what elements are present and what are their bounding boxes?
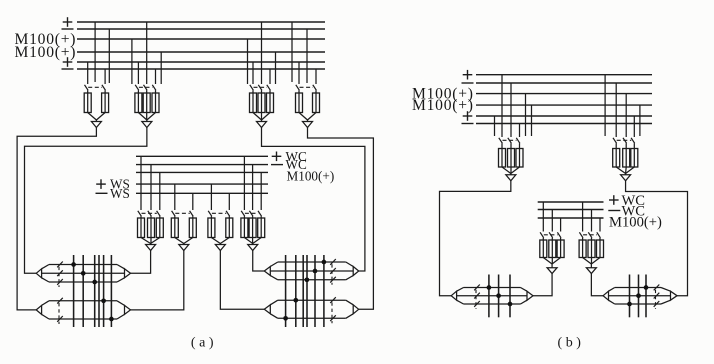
switch blade aG4.2 bbox=[313, 85, 317, 91]
resistor bG1.3 bbox=[516, 149, 523, 168]
resistor bG2.2 bbox=[623, 149, 630, 168]
switch blade aG2.3 bbox=[152, 85, 156, 91]
switch blade on line bMR.2 bbox=[654, 293, 660, 299]
wire dropper from bus to switch bG2.1 bbox=[615, 83, 617, 137]
switch blade on line bML.2 bbox=[474, 293, 480, 299]
switch blade bMA.1 bbox=[540, 232, 544, 238]
wire dropper from bus to switch aG2.1 bbox=[137, 62, 139, 84]
wire switch to resistor aMD.2 bbox=[252, 216, 254, 218]
bit line vertical bML bbox=[498, 275, 500, 318]
wire spare dropper aG3 bbox=[275, 52, 277, 84]
wire switch to resistor aG2.2 bbox=[146, 90, 148, 93]
fan-in bracket bMR bbox=[661, 288, 671, 292]
switch blade aMC.1 bbox=[208, 211, 212, 217]
switch blade bMA.3 bbox=[557, 232, 561, 238]
switch blade on line bMR.3 bbox=[654, 301, 660, 307]
switch blade bMB.1 bbox=[579, 232, 583, 238]
core junction dot bML bbox=[508, 302, 513, 307]
wire through resistor bG1.2 bbox=[510, 149, 512, 168]
switch blade aMA.3 bbox=[157, 211, 161, 217]
driver triangle aMA bbox=[146, 245, 156, 251]
driver triangle bG2 bbox=[621, 175, 631, 181]
switch blade on line bMR.1 bbox=[654, 285, 660, 291]
wire dropper from bus to switch aG1.1 bbox=[87, 62, 89, 84]
wire dropper from bus to switch aMB.1 bbox=[174, 184, 176, 210]
switch blade bG2.1 bbox=[613, 138, 617, 144]
resistor bG2.3 bbox=[631, 149, 638, 168]
resistor aG2.3 bbox=[152, 93, 159, 113]
dashed gang link bMR bbox=[655, 290, 657, 309]
resistor aMD.3 bbox=[258, 218, 265, 238]
dashed gang link aG4 bbox=[300, 86, 314, 88]
resistor bMB.1 bbox=[579, 240, 586, 258]
switch blade aMA.2 bbox=[148, 211, 152, 217]
driver triangle aG3 bbox=[257, 122, 267, 128]
switch blade aG2.1 bbox=[135, 85, 139, 91]
input triangle aML2 bbox=[36, 305, 41, 314]
bit line vertical aMR bbox=[295, 255, 297, 327]
dashed gang link bG2 bbox=[617, 139, 632, 141]
wire through resistor bMB.1 bbox=[582, 240, 584, 258]
resistor bMA.3 bbox=[557, 240, 564, 258]
bit line vertical aMR bbox=[302, 255, 304, 327]
label plus sign bbox=[463, 74, 473, 76]
wire switch to resistor aMB.2 bbox=[192, 216, 194, 218]
dashed gang link aMA bbox=[142, 212, 157, 214]
core junction dot aML bbox=[92, 280, 97, 285]
wire dropper from bus to switch bMB.2 bbox=[591, 210, 593, 232]
wire through resistor bMB.3 bbox=[599, 240, 601, 258]
wire through resistor aG4.2 bbox=[315, 93, 317, 113]
wire aG2 to matrix aML row1 input bbox=[25, 128, 147, 274]
wire dropper from bus to switch bG1.2 bbox=[510, 83, 512, 137]
wire through resistor bG2.3 bbox=[633, 149, 635, 168]
wire dropper from bus to switch aG4.2 bbox=[315, 69, 317, 84]
core junction dot aMR bbox=[283, 316, 288, 321]
wire through resistor aG3.2 bbox=[261, 93, 263, 113]
wire aG4 to matrix aMR row2 output bbox=[308, 128, 374, 310]
switch blade on line aMR2.2 bbox=[330, 315, 336, 321]
wire switch to resistor bMA.2 bbox=[551, 238, 553, 240]
switch blade aG4.1 bbox=[296, 85, 300, 91]
bit line vertical bMR bbox=[638, 275, 640, 318]
label plus sign bbox=[63, 61, 73, 63]
input triangle aMR1 bbox=[264, 267, 270, 276]
bus line a-top 1 bbox=[77, 21, 325, 23]
wire through resistor aG2.1 bbox=[137, 93, 139, 113]
switch blade bG1.2 bbox=[508, 138, 512, 144]
resistor aG2.1 bbox=[135, 93, 142, 113]
wire switch to resistor aG4.2 bbox=[315, 90, 317, 93]
selection line middle aML1 bbox=[42, 272, 125, 274]
wire dropper from bus to switch aG3.1 bbox=[252, 62, 254, 84]
wire dropper from bus to switch bG2.2 bbox=[625, 94, 627, 137]
wire spare dropper aG4 bbox=[306, 29, 308, 83]
wire converge aG3 bbox=[253, 113, 262, 121]
dashed gang link bMB bbox=[583, 234, 597, 236]
wire dropper from bus to switch bMA.1 bbox=[542, 202, 544, 232]
wire aMB to matrix aML row2 output bbox=[131, 251, 184, 310]
resistor bMA.1 bbox=[540, 240, 547, 258]
wire dropper from bus to switch aMD.3 bbox=[260, 172, 262, 210]
core junction dot aML bbox=[71, 262, 76, 267]
wire through resistor bG2.1 bbox=[615, 149, 617, 168]
wire switch to resistor aMA.2 bbox=[150, 216, 152, 218]
wire spare dropper aG4 bbox=[291, 22, 293, 82]
selection line top aMR1 bbox=[278, 261, 346, 263]
selection line top aML2 bbox=[49, 300, 117, 302]
fan-in bracket aMR2 bbox=[346, 300, 353, 305]
input triangle bMR bbox=[603, 291, 608, 300]
wire spare dropper bG2 bbox=[639, 105, 641, 136]
wire through resistor aMD.3 bbox=[260, 218, 262, 238]
resistor aMD.1 bbox=[241, 218, 248, 238]
wire switch to resistor aMD.1 bbox=[243, 216, 245, 218]
wire aMD to matrix aMR row1 input bbox=[253, 251, 265, 272]
wire aMC to matrix aMR row2 input bbox=[220, 251, 264, 310]
wire spare dropper aG3 bbox=[247, 39, 249, 84]
resistor aG1.2 bbox=[102, 93, 109, 113]
driver triangle bMB bbox=[586, 268, 596, 274]
fan-in bracket aML1 bbox=[117, 265, 125, 269]
dashed gang link aML1 bbox=[58, 267, 60, 287]
fan-out bracket aMR2 bbox=[270, 300, 278, 305]
wire spare dropper aG1 bbox=[94, 22, 96, 82]
wire switch to resistor bG1.2 bbox=[510, 143, 512, 148]
wire switch to resistor bG2.2 bbox=[625, 143, 627, 148]
driver triangle aMB bbox=[179, 245, 189, 251]
wire switch to resistor aG1.2 bbox=[104, 90, 106, 93]
wire spare dropper aG1 bbox=[108, 29, 110, 83]
bus line b-mid 2 bbox=[538, 209, 604, 211]
wire dropper from bus to switch bG2.3 bbox=[633, 116, 635, 137]
wire dropper from bus to switch aMC.1 bbox=[210, 184, 212, 210]
resistor bG1.2 bbox=[508, 149, 515, 168]
bus line b-mid 3 bbox=[538, 217, 604, 219]
output triangle bML bbox=[527, 291, 533, 300]
wire switch to resistor aG3.2 bbox=[261, 90, 263, 93]
wire through resistor aG3.1 bbox=[252, 93, 254, 113]
bus line a-mid 3 bbox=[136, 171, 268, 173]
bus line b-top 3 bbox=[476, 93, 652, 95]
bit line vertical bML bbox=[509, 275, 511, 318]
wire dropper from bus to switch aG2.3 bbox=[155, 69, 157, 84]
label minus sign bbox=[462, 82, 474, 84]
fan-in bracket bML bbox=[521, 288, 528, 292]
wire through resistor aMB.1 bbox=[174, 218, 176, 238]
bus line a-top 6 bbox=[77, 68, 325, 70]
bit line vertical aML bbox=[73, 255, 75, 327]
switch blade bG2.2 bbox=[623, 138, 627, 144]
resistor aMA.3 bbox=[156, 218, 163, 238]
wire through resistor aMC.1 bbox=[210, 218, 212, 238]
wire through resistor bMA.3 bbox=[560, 240, 562, 258]
svg-text:M100(+): M100(+) bbox=[287, 168, 335, 183]
wire through resistor aG3.3 bbox=[269, 93, 271, 113]
wire spare dropper bG1 bbox=[525, 94, 527, 136]
core junction dot aMR bbox=[293, 298, 298, 303]
wire switch to resistor bMB.3 bbox=[599, 238, 601, 240]
wire spare dropper bG1 bbox=[494, 116, 496, 136]
wire converge aMB bbox=[175, 238, 184, 244]
bus line a-top 2 bbox=[77, 28, 325, 30]
switch blade on line aML1.2 bbox=[57, 270, 63, 276]
wire through resistor aMB.2 bbox=[192, 218, 194, 238]
selection line bottom aML2 bbox=[49, 318, 117, 320]
wire converge bMA bbox=[543, 258, 552, 265]
resistor bMA.2 bbox=[549, 240, 556, 258]
dashed gang link aG1 bbox=[88, 86, 102, 88]
switch blade on line aMR1.2 bbox=[330, 268, 336, 274]
wire dropper from bus to switch bMB.1 bbox=[582, 202, 584, 232]
switch blade bG1.3 bbox=[516, 138, 520, 144]
wire dropper from bus to switch bG1.1 bbox=[501, 75, 503, 137]
bit line vertical bML bbox=[488, 275, 490, 318]
wire through resistor aMA.3 bbox=[159, 218, 161, 238]
resistor bG2.1 bbox=[613, 149, 620, 168]
dashed gang link aMB bbox=[175, 212, 190, 214]
wire switch to resistor aMD.3 bbox=[260, 216, 262, 218]
selection line bottom bML bbox=[464, 303, 521, 305]
bus line a-top 3 bbox=[77, 38, 325, 40]
bus line a-top 5 bbox=[77, 61, 325, 63]
switch blade aG3.2 bbox=[258, 85, 262, 91]
bus line b-mid 1 bbox=[538, 201, 604, 203]
dashed gang link aMR1 bbox=[331, 264, 333, 285]
switch blade bG1.1 bbox=[499, 138, 503, 144]
wire switch to resistor bG2.3 bbox=[633, 143, 635, 148]
dashed gang link aMC bbox=[212, 212, 226, 214]
core junction dot bMR bbox=[627, 302, 632, 307]
fan-out bracket bMR bbox=[609, 288, 615, 292]
switch blade on line bML.1 bbox=[474, 285, 480, 291]
switch blade aMD.1 bbox=[241, 211, 245, 217]
resistor aMA.2 bbox=[148, 218, 155, 238]
label minus sign bbox=[462, 123, 474, 125]
core junction dot aMR bbox=[305, 277, 310, 282]
resistor aG1.1 bbox=[84, 93, 91, 113]
input triangle bML bbox=[451, 291, 456, 300]
resistor aMB.1 bbox=[171, 218, 178, 238]
wire switch to resistor aG2.3 bbox=[155, 90, 157, 93]
switch blade on line aML1.1 bbox=[57, 262, 63, 268]
core junction dot aML bbox=[109, 317, 114, 322]
switch blade on line aMR1.3 bbox=[330, 277, 336, 283]
label plus sign bbox=[272, 155, 282, 157]
core junction dot aML bbox=[81, 271, 86, 276]
fan-out bracket aMR1 bbox=[270, 262, 278, 267]
wire switch to resistor bMB.1 bbox=[582, 238, 584, 240]
wire spare dropper aG2 bbox=[131, 39, 133, 84]
switch blade aMD.2 bbox=[249, 211, 253, 217]
wire switch to resistor bG2.1 bbox=[615, 143, 617, 148]
switch blade aG1.1 bbox=[85, 85, 89, 91]
selection line top aMR2 bbox=[278, 299, 346, 301]
wire through resistor bMA.1 bbox=[542, 240, 544, 258]
bit line vertical aML bbox=[82, 255, 84, 327]
svg-text:(b): (b) bbox=[557, 336, 584, 351]
wire dropper from bus to switch aMA.3 bbox=[159, 172, 161, 210]
wire switch to resistor bG1.3 bbox=[519, 143, 521, 148]
wire converge aG1 bbox=[88, 113, 97, 121]
dashed gang link bMA bbox=[544, 234, 558, 236]
wire bG2 to matrix bMR output bbox=[626, 181, 688, 296]
selection line middle aMR1 bbox=[270, 270, 353, 272]
bit line vertical aML bbox=[98, 255, 100, 327]
driver triangle aG4 bbox=[303, 122, 313, 128]
wire through resistor aG1.2 bbox=[104, 93, 106, 113]
switch blade aMC.2 bbox=[226, 211, 230, 217]
driver triangle bG1 bbox=[506, 175, 516, 181]
wire through resistor bG1.1 bbox=[501, 149, 503, 168]
bit line vertical aMR bbox=[314, 255, 316, 327]
switch blade bMB.3 bbox=[597, 232, 601, 238]
label minus sign bbox=[271, 164, 283, 166]
switch blade aMB.1 bbox=[172, 211, 176, 217]
wire dropper from bus to switch bMA.2 bbox=[551, 210, 553, 232]
switch blade aG3.1 bbox=[250, 85, 254, 91]
wire switch to resistor aMA.1 bbox=[140, 216, 142, 218]
core junction dot aML bbox=[101, 298, 106, 303]
wire aMA to matrix aML row1 output bbox=[131, 251, 151, 274]
wire converge aMA bbox=[141, 238, 151, 244]
wire dropper from bus to switch aG3.3 bbox=[269, 69, 271, 84]
wire dropper from bus to switch aMC.2 bbox=[228, 193, 230, 210]
label plus sign bbox=[609, 199, 619, 201]
wire switch to resistor bMA.1 bbox=[542, 238, 544, 240]
driver triangle aMD bbox=[248, 245, 258, 251]
wire through resistor bG1.3 bbox=[519, 149, 521, 168]
bus line a-mid 5 bbox=[136, 192, 268, 194]
wire bMA to matrix bML output bbox=[533, 274, 552, 296]
wire dropper from bus to switch aG3.2 bbox=[261, 22, 263, 84]
driver triangle aMC bbox=[215, 245, 225, 251]
switch blade aMA.1 bbox=[138, 211, 142, 217]
wire spare dropper aG2 bbox=[160, 52, 162, 84]
dashed gang link aG2 bbox=[139, 86, 153, 88]
bit line vertical aMR bbox=[306, 255, 308, 327]
wire through resistor aMA.1 bbox=[140, 218, 142, 238]
resistor aG3.2 bbox=[258, 93, 265, 113]
wire switch to resistor bMA.3 bbox=[560, 238, 562, 240]
resistor aG3.1 bbox=[250, 93, 257, 113]
wire dropper from bus to switch aMB.2 bbox=[192, 193, 194, 210]
resistor bG1.1 bbox=[499, 149, 506, 168]
resistor aG4.1 bbox=[296, 93, 303, 113]
resistor aMC.2 bbox=[226, 218, 233, 238]
switch blade aG3.3 bbox=[267, 85, 271, 91]
selection line bottom bMR bbox=[615, 303, 661, 305]
switch blade on line aMR2.1 bbox=[330, 297, 336, 303]
dashed gang link bML bbox=[475, 290, 477, 309]
core junction dot aMR bbox=[313, 269, 318, 274]
fan-out bracket bML bbox=[457, 288, 464, 292]
switch blade bMA.2 bbox=[549, 232, 553, 238]
wire switch to resistor aMC.1 bbox=[210, 216, 212, 218]
core junction dot bML bbox=[487, 285, 492, 290]
wire aG3 to matrix aMR row1 output bbox=[262, 128, 365, 272]
fan-out bracket aML2 bbox=[42, 301, 49, 306]
wire through resistor aG2.3 bbox=[155, 93, 157, 113]
bus line b-top 2 bbox=[476, 82, 652, 84]
switch blade bMB.2 bbox=[588, 232, 592, 238]
wire dropper from bus to switch aMD.1 bbox=[243, 156, 245, 210]
wire switch to resistor aMA.3 bbox=[159, 216, 161, 218]
selection line middle bMR bbox=[609, 295, 671, 297]
bus line b-top 1 bbox=[476, 74, 652, 76]
wire switch to resistor aG4.1 bbox=[298, 90, 300, 93]
switch blade on line bML.3 bbox=[474, 301, 480, 307]
wire bMB to matrix bMR input bbox=[591, 274, 603, 296]
wire through resistor aMD.2 bbox=[252, 218, 254, 238]
switch blade on line aML2.2 bbox=[57, 316, 63, 322]
selection line middle bML bbox=[457, 295, 527, 297]
bus line b-top 5 bbox=[476, 115, 652, 117]
wire switch to resistor aG3.1 bbox=[252, 90, 254, 93]
driver triangle aG1 bbox=[91, 122, 101, 128]
core junction dot aMR bbox=[322, 260, 327, 265]
wire converge bG2 bbox=[616, 167, 625, 174]
bit line vertical aMR bbox=[285, 255, 287, 327]
bus line a-mid 2 bbox=[136, 164, 268, 166]
wire through resistor bMA.2 bbox=[551, 240, 553, 258]
wire switch to resistor aG1.1 bbox=[87, 90, 89, 93]
wire dropper from bus to switch bMA.3 bbox=[560, 218, 562, 232]
resistor aG3.3 bbox=[267, 93, 274, 113]
wire dropper from bus to switch aMA.1 bbox=[140, 156, 142, 210]
wire aG1 to matrix aML row2 input bbox=[17, 128, 96, 310]
resistor bMB.2 bbox=[588, 240, 595, 258]
wire spare dropper bG1 bbox=[531, 105, 533, 136]
bit line vertical aML bbox=[94, 255, 96, 327]
resistor aMC.1 bbox=[208, 218, 215, 238]
output triangle aML2 bbox=[125, 305, 131, 314]
wire dropper from bus to switch bG1.3 bbox=[519, 124, 521, 138]
wire converge bG1 bbox=[502, 167, 511, 174]
selection line bottom aMR2 bbox=[278, 317, 346, 319]
wire dropper from bus to switch aG4.1 bbox=[298, 62, 300, 84]
input triangle aMR2 bbox=[264, 305, 270, 314]
resistor aMA.1 bbox=[138, 218, 145, 238]
bit line vertical aML bbox=[110, 255, 112, 327]
wire converge aG4 bbox=[299, 113, 308, 121]
label minus sign bbox=[62, 28, 74, 30]
dashed gang link aG3 bbox=[254, 86, 268, 88]
core junction dot bMR bbox=[636, 293, 641, 298]
resistor aMD.2 bbox=[249, 218, 256, 238]
bit line vertical bMR bbox=[629, 275, 631, 318]
bit line vertical aML bbox=[103, 255, 105, 327]
switch blade aG1.2 bbox=[102, 85, 106, 91]
dashed gang link aML2 bbox=[58, 303, 60, 324]
wire through resistor aMD.1 bbox=[243, 218, 245, 238]
bus line a-top 4 bbox=[77, 51, 325, 53]
core junction dot bMR bbox=[644, 285, 649, 290]
resistor bMB.3 bbox=[597, 240, 604, 258]
selection line top bML bbox=[464, 287, 521, 289]
resistor aG4.2 bbox=[313, 93, 320, 113]
bus line a-mid 4 bbox=[136, 183, 268, 185]
output triangle bMR bbox=[671, 291, 678, 300]
label minus sign bbox=[96, 192, 108, 194]
wire through resistor aMA.2 bbox=[150, 218, 152, 238]
svg-text:M100(+): M100(+) bbox=[609, 215, 662, 231]
output triangle aML1 bbox=[125, 269, 131, 278]
fan-in bracket aML2 bbox=[117, 301, 125, 306]
wire dropper from bus to switch aMA.2 bbox=[150, 165, 152, 210]
switch blade on line aML2.1 bbox=[57, 298, 63, 304]
wire switch to resistor bG1.1 bbox=[501, 143, 503, 148]
